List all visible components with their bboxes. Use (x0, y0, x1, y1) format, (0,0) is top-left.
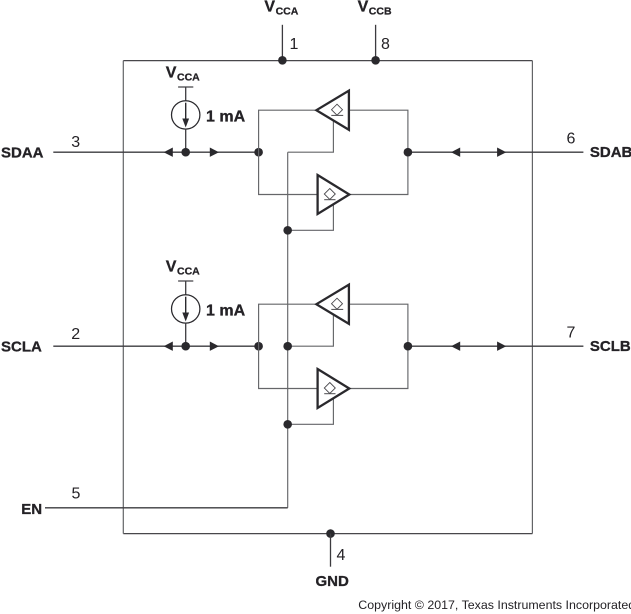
buffer U2 (A-to-B, points right) (318, 175, 350, 214)
buffer U1 (B-to-A, points left) (316, 91, 349, 130)
svg-text:1: 1 (290, 36, 299, 53)
wire pin 1 stub (281, 25, 283, 61)
wire right loop (buffer in/out) ch2 (349, 304, 408, 388)
svg-text:V: V (264, 0, 275, 16)
wire current source I2 to SCLA line (185, 323, 187, 346)
junction EN net / enable wire ch2 (283, 342, 292, 351)
svg-text:CCA: CCA (276, 5, 299, 17)
wire EN bus line (45, 507, 288, 509)
buffer U3 (B-to-A, points left) (316, 285, 349, 324)
power stub T-bar I1 (178, 86, 193, 88)
svg-text:SDAB: SDAB (590, 144, 631, 161)
svg-text:SCLA: SCLA (1, 339, 42, 356)
svg-text:2: 2 (71, 326, 80, 343)
svg-text:CCB: CCB (369, 5, 392, 17)
wire right loop (buffer in/out) ch1 (349, 110, 408, 194)
arrow SCLB right (497, 342, 506, 351)
wire GND pin stub (330, 534, 332, 567)
svg-text:6: 6 (566, 131, 575, 148)
junction enable bus ch1 (283, 226, 292, 235)
arrow SCLA right (210, 342, 219, 351)
wire SCLA bus line (53, 345, 258, 347)
junction enable bus ch2 (283, 420, 292, 429)
wire enable of bottom buffer ch1 (288, 205, 334, 231)
wire enable of bottom buffer ch2 (288, 399, 334, 425)
junction pin8 to box (371, 56, 380, 65)
wire SCLB bus line (408, 345, 584, 347)
arrow SDAA right (210, 148, 219, 157)
arrow SDAB left (451, 148, 460, 157)
junction current source I2 / SCLA (181, 342, 190, 351)
svg-text:8: 8 (381, 36, 390, 53)
junction pin1 to box (278, 56, 287, 65)
wire SDAB bus line (408, 151, 584, 153)
arrow SDAA left (164, 148, 173, 157)
wire enable of top buffer ch2 (288, 315, 334, 347)
arrow SCLA left (164, 342, 173, 351)
arrow SCLB left (451, 342, 460, 351)
wire left loop (buffer out/in) ch2 (259, 304, 318, 388)
current source I1 arrow (185, 103, 187, 120)
current source I2 circle (172, 295, 200, 323)
svg-text:3: 3 (71, 134, 80, 151)
buffer U4 (A-to-B, points right) (318, 369, 350, 408)
junction right loop / SCLB (404, 342, 413, 351)
svg-text:SDAA: SDAA (1, 145, 44, 162)
wire pin 8 stub (375, 25, 377, 61)
svg-text:1 mA: 1 mA (206, 302, 246, 319)
svg-text:CCA: CCA (177, 72, 200, 84)
svg-text:7: 7 (566, 325, 575, 342)
current source I1 circle (172, 101, 200, 129)
svg-text:Copyright © 2017, Texas Instru: Copyright © 2017, Texas Instruments Inco… (358, 598, 631, 612)
wire SDAA bus line (53, 151, 258, 153)
svg-text:V: V (166, 65, 177, 82)
svg-text:GND: GND (316, 573, 350, 590)
junction current source I1 / SDAA (181, 148, 190, 157)
wire left loop (buffer out/in) ch1 (259, 110, 318, 194)
svg-text:CCA: CCA (177, 266, 200, 278)
svg-text:4: 4 (336, 547, 345, 564)
wire current source I1 to SDAA line (185, 129, 187, 152)
power stub T-bar I2 (178, 280, 193, 282)
svg-text:SCLB: SCLB (590, 338, 631, 355)
wire VCCA to current source I1 (185, 87, 187, 101)
IC outline box (123, 60, 532, 62)
svg-text:1 mA: 1 mA (206, 108, 246, 125)
wire VCCA to current source I2 (185, 281, 187, 295)
junction GND pin to box (326, 529, 335, 538)
junction SCLA / left loop (254, 342, 263, 351)
svg-text:5: 5 (71, 486, 80, 503)
junction SDAA / left loop (254, 148, 263, 157)
svg-text:V: V (166, 259, 177, 276)
wire enable of top buffer ch1 (288, 121, 334, 153)
junction right loop / SDAB (404, 148, 413, 157)
svg-text:EN: EN (21, 501, 42, 518)
svg-text:V: V (358, 0, 369, 16)
wire EN vertical net (287, 152, 289, 508)
current source I2 arrow (185, 297, 187, 314)
arrow SDAB right (497, 148, 506, 157)
